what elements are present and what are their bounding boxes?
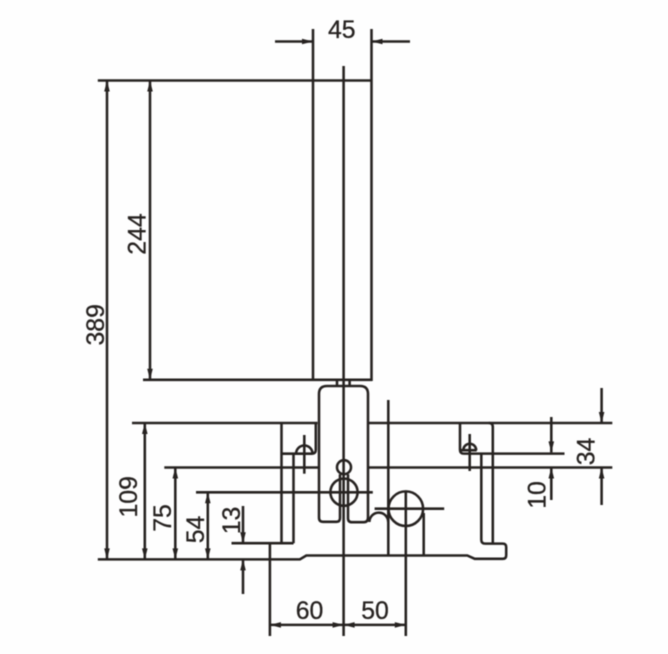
svg-text:109: 109 bbox=[116, 476, 143, 517]
svg-text:244: 244 bbox=[124, 213, 151, 255]
svg-text:75: 75 bbox=[150, 504, 177, 532]
svg-text:45: 45 bbox=[328, 17, 356, 44]
svg-text:50: 50 bbox=[361, 598, 389, 625]
svg-text:60: 60 bbox=[296, 598, 324, 625]
svg-text:54: 54 bbox=[183, 516, 210, 544]
svg-text:13: 13 bbox=[219, 507, 246, 535]
svg-text:34: 34 bbox=[574, 438, 601, 466]
svg-text:10: 10 bbox=[524, 481, 551, 509]
svg-text:389: 389 bbox=[83, 304, 110, 345]
